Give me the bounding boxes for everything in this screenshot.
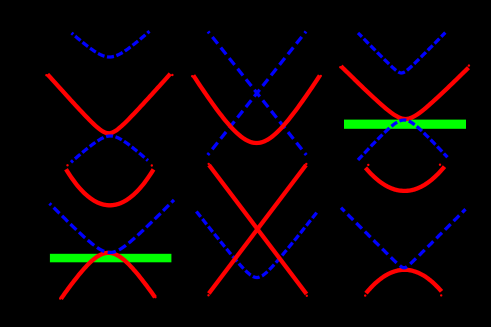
panel (f) red solid upper band (U) <box>366 167 445 191</box>
panel (b) red solid band (rounded V) <box>191 75 322 143</box>
panel (d) green Fermi-level bar <box>50 254 171 262</box>
panel (f) upper band left endpoint dot <box>367 164 369 166</box>
panel (e) red solid crossing line (down-right) <box>208 163 308 297</box>
panel (d) blue dashed band (U) <box>50 200 175 253</box>
panel (c) upper band, blue dashed V <box>358 33 445 73</box>
panel (b) blue dashed crossing line (down-left) <box>208 32 306 156</box>
panel (f) blue dashed band (V) <box>341 208 466 268</box>
panel (e) red solid crossing line (down-left) <box>207 163 307 297</box>
panel (d) red solid upper band (U) <box>66 164 154 205</box>
panel (b) blue dashed crossing line (down-right) <box>208 32 306 156</box>
panel (f) red solid lower band (inverted U) <box>364 270 442 297</box>
panel (a) upper band, blue dashed parabola <box>72 31 150 57</box>
panel (a) lower band, blue dashed inverted parabola <box>71 136 148 162</box>
panel (e) blue dashed band (rounded V) <box>195 210 318 278</box>
panel (c) green Fermi-level bar <box>344 120 466 129</box>
panel (d) red solid lower band (inverted V) <box>59 253 157 300</box>
panel (c) lower band, blue dashed inverted parabola <box>358 120 448 160</box>
panel (c) red solid band touching Fermi bar <box>339 64 470 119</box>
panel (f) upper band right endpoint dot <box>439 164 441 166</box>
panel (a) red solid conduction band (anticrossing V) <box>45 74 173 134</box>
